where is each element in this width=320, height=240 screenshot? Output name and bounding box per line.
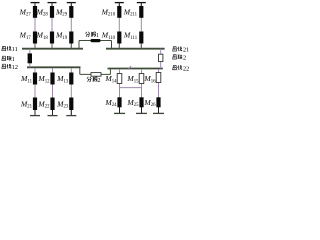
breaker M17 — [33, 32, 37, 44]
load terminal feeder 5 — [136, 112, 147, 114]
sectionalizer link 分段2 right stub — [109, 69, 111, 75]
source terminal feeder 10 — [115, 2, 124, 4]
breaker M111 — [139, 32, 143, 44]
breaker M18 — [50, 32, 54, 44]
label 分段2 — [87, 77, 100, 84]
sectionalizer link 分段2 left stub — [79, 67, 81, 74]
breaker M19 — [69, 32, 73, 44]
breaker M11 — [33, 73, 37, 85]
wire feeder 9 — [70, 3, 72, 48]
load terminal feeder 4 — [114, 112, 125, 114]
wire feeder 5 — [141, 69, 143, 113]
tie breaker 母联2 wire — [160, 49, 162, 69]
junction tick on bus22 — [128, 66, 131, 70]
svg-text:1: 1 — [96, 33, 99, 39]
svg-text:2: 2 — [98, 78, 101, 84]
sectionalizer link 分段1 wire — [79, 40, 112, 42]
breaker M22 — [50, 98, 54, 111]
label 母线12 — [2, 64, 18, 71]
svg-text:2: 2 — [183, 55, 186, 62]
breaker 分段2 (open) — [91, 73, 101, 77]
breaker M28 — [50, 6, 54, 18]
breaker M211 — [139, 6, 143, 18]
svg-text:11: 11 — [12, 46, 18, 53]
label 母线11 — [2, 46, 18, 53]
source terminal feeder 11 — [137, 2, 146, 4]
breaker 母联1 — [28, 53, 32, 63]
load terminal feeder 6 — [153, 112, 164, 114]
wire feeder 3 — [70, 68, 72, 116]
tie wire between feeder 4 and feeder 5 — [120, 87, 142, 89]
label 母线22 — [173, 65, 190, 72]
svg-text:21: 21 — [183, 47, 189, 54]
sectionalizer link 分段1 left stub — [78, 41, 80, 49]
breaker M16 (open) — [156, 73, 161, 83]
sectionalizer link 分段2 wire — [80, 73, 111, 75]
breaker M13 — [69, 73, 73, 85]
tie breaker 母联1 wire — [29, 49, 31, 68]
breaker M24 — [117, 97, 121, 107]
source terminal feeder 9 — [67, 2, 76, 4]
breaker M15 (open) — [139, 74, 144, 84]
breaker M26 — [156, 97, 160, 107]
wire feeder 10 — [118, 3, 120, 48]
sectionalizer link 分段1 right stub — [111, 41, 113, 49]
svg-text:22: 22 — [183, 65, 189, 72]
bus 母线22 (right lower bus bar) — [108, 68, 163, 70]
wire feeder 1 — [34, 68, 36, 116]
breaker M21 — [33, 98, 37, 111]
wire feeder 11 — [140, 3, 142, 48]
wire feeder 8 — [51, 3, 53, 48]
breaker M27 — [33, 6, 37, 18]
bus 母线21 (right upper bus bar) — [106, 48, 165, 50]
wire feeder 6 — [158, 69, 160, 113]
bus 母线12 (left lower bus bar) — [27, 66, 81, 68]
label 母联1 — [2, 56, 15, 63]
breaker M110 — [117, 32, 121, 44]
breaker M14 (open) — [117, 74, 122, 84]
breaker M210 — [117, 6, 121, 18]
breaker M25 — [139, 97, 143, 107]
label 分段1 — [86, 32, 99, 39]
label 母线21 — [173, 47, 190, 54]
breaker M29 — [69, 6, 73, 18]
wire feeder 7 — [34, 3, 36, 48]
wire feeder 4 — [119, 69, 121, 113]
load terminal feeder 2 — [48, 115, 58, 117]
breaker 分段1 — [91, 39, 101, 42]
bus 母线11 (left upper bus bar) — [22, 48, 83, 50]
load terminal feeder 1 — [30, 115, 40, 117]
wire feeder 2 — [52, 68, 54, 116]
breaker M23 — [69, 98, 73, 111]
label 母联2 — [173, 55, 186, 62]
breaker 母联2 (open) — [159, 54, 163, 61]
source terminal feeder 8 — [48, 2, 57, 4]
load terminal feeder 3 — [66, 115, 76, 117]
source terminal feeder 7 — [31, 2, 40, 4]
breaker M12 — [50, 73, 54, 85]
svg-text:12: 12 — [12, 64, 18, 71]
svg-text:1: 1 — [12, 56, 15, 63]
